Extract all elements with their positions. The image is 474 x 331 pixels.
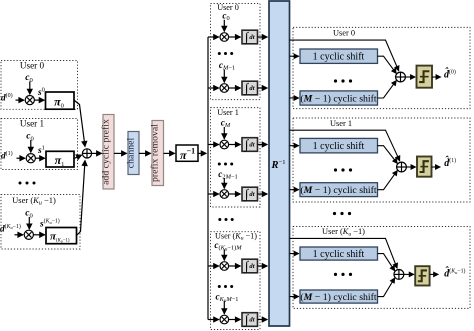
- ellipsis between despread boxes: [218, 218, 221, 221]
- integrator int-dt r0b: [242, 80, 258, 96]
- svg-text:User 0: User 0: [217, 3, 239, 12]
- svg-text:1 cyclic shift: 1 cyclic shift: [313, 141, 365, 152]
- wire multiplier to integrator r2b: [229, 319, 241, 321]
- wire integrator to R r2b: [258, 319, 268, 321]
- svg-text:dt: dt: [249, 317, 254, 324]
- wire c to multiplier r1a: [223, 127, 225, 139]
- multiplier r0b: [220, 84, 229, 93]
- wire pi0 to sum node: [74, 100, 85, 146]
- integrator int-dt r2b: [242, 312, 258, 328]
- wire pi-inverse to despread bus: [198, 152, 206, 154]
- box M-1 cyclic shift User 1: [300, 183, 378, 197]
- wire decision to output User 1: [432, 166, 441, 168]
- multiplier X2 (user1 tx): [26, 154, 35, 163]
- wire c to multiplier r2b: [223, 301, 225, 314]
- wire decision to output User 0: [432, 76, 441, 78]
- wire multiplier to interleaver pi0: [34, 99, 44, 101]
- svg-text:(M − 1) cyclic shift: (M − 1) cyclic shift: [300, 292, 377, 303]
- wire d(1) to multiplier: [17, 157, 25, 159]
- wire multiplier to integrator r0b: [229, 87, 241, 89]
- wire c to multiplier r2a: [223, 250, 225, 261]
- wire R to 1-cyclic-shift User (Ku-1): [290, 253, 299, 255]
- adder User 0: [396, 72, 406, 82]
- svg-text:1 cyclic shift: 1 cyclic shift: [313, 249, 365, 260]
- dashed box User 1 (despreader): [211, 108, 261, 207]
- integrator int-dt r2a: [242, 258, 258, 274]
- interleaver piKu box: [46, 228, 77, 244]
- ellipsis between receiver users: [333, 212, 336, 215]
- box 1 cyclic shift User (Ku-1): [300, 247, 378, 260]
- wire M-1-cyclic-shift to adder User 0: [378, 81, 397, 98]
- svg-text:dt: dt: [249, 85, 254, 92]
- ellipsis despread userKu: [218, 285, 221, 288]
- ellipsis shifts User 1: [334, 168, 337, 171]
- box 1 cyclic shift User 0: [300, 49, 378, 63]
- wire bus to multiplier r0a: [208, 36, 219, 38]
- adder User 1: [397, 162, 407, 172]
- ellipsis shifts User (Ku-1): [334, 273, 337, 276]
- wire R direct path User 0: [290, 40, 399, 71]
- ellipsis between tx users: [19, 182, 22, 185]
- wire adder to decision User (Ku-1): [404, 273, 414, 275]
- channel box: [128, 132, 139, 175]
- box M-1 cyclic shift User 0: [300, 91, 378, 105]
- wire M-1-cyclic-shift to adder User (Ku-1): [378, 278, 395, 297]
- multiplier r1b: [220, 190, 229, 199]
- wire bus to multiplier r0b: [208, 87, 219, 89]
- wire integrator to R r1a: [258, 144, 268, 146]
- wire adder to decision User 1: [406, 166, 415, 168]
- wire multiplier to interleaver piKu: [33, 234, 44, 236]
- multiplier r2b: [220, 315, 229, 324]
- wire integrator to R r0a: [258, 36, 268, 38]
- wire prem to deinterleaver: [164, 152, 175, 154]
- wire piKu to sum node: [77, 161, 86, 236]
- integrator int-dt r0a: [242, 29, 258, 45]
- ellipsis shifts User 0: [334, 79, 337, 82]
- wire R to M-1-cyclic-shift User 0: [290, 97, 299, 99]
- wire acp to channel: [114, 152, 127, 154]
- wire 1-cyclic-shift to adder User 0: [378, 56, 397, 73]
- wire 1-cyclic-shift to adder User (Ku-1): [378, 254, 395, 271]
- wire pi1 to sum node: [74, 155, 82, 159]
- wire channel to prefix removal: [139, 152, 151, 154]
- box 1 cyclic shift User 1: [300, 138, 378, 153]
- wire decision to output User (Ku-1): [430, 273, 439, 275]
- dashed box User 1 (transmitter): [1, 119, 78, 170]
- svg-text:User 1: User 1: [20, 119, 45, 129]
- wire c0 to multiplier (user1 tx): [30, 140, 32, 152]
- wire R to 1-cyclic-shift User 1: [290, 145, 299, 147]
- box M-1 cyclic shift User (Ku-1): [300, 290, 378, 303]
- wire multiplier to integrator r1b: [229, 193, 241, 195]
- wire 1-cyclic-shift to adder User 1: [378, 146, 398, 164]
- svg-text:channel: channel: [126, 137, 137, 168]
- wire c0 to multiplier (user0 tx): [29, 82, 31, 95]
- wire R direct path User (Ku-1): [290, 238, 398, 268]
- wire integrator to R r1b: [258, 193, 268, 195]
- integrator int-dt r1a: [242, 137, 258, 153]
- dashed box User 0 (receiver): [293, 27, 470, 108]
- wire integrator to R r2a: [258, 265, 268, 267]
- dashed box User 0 (despreader): [211, 4, 261, 100]
- wire R to M-1-cyclic-shift User (Ku-1): [290, 296, 299, 298]
- sum node adder: [82, 149, 91, 158]
- svg-text:1 cyclic shift: 1 cyclic shift: [313, 52, 365, 63]
- wire c to multiplier r0a: [223, 20, 225, 32]
- interleaver pi1 box: [46, 151, 74, 167]
- decision device User 1: [417, 157, 432, 177]
- wire c to multiplier r1b: [223, 179, 225, 189]
- wire c to multiplier r0b: [223, 70, 225, 83]
- wire multiplier to integrator r2a: [229, 265, 241, 267]
- ellipsis despread user1: [218, 163, 221, 166]
- svg-text:User 1: User 1: [330, 119, 352, 128]
- dashed box User (Ku-1) (receiver): [293, 227, 470, 309]
- svg-text:User (Ku −1): User (Ku −1): [215, 231, 257, 241]
- dashed box User 1 (receiver): [293, 118, 470, 202]
- multiplier r2a: [220, 262, 229, 271]
- wire d(Ku-1) to multiplier: [15, 234, 23, 236]
- svg-text:User (Ku −1): User (Ku −1): [322, 227, 365, 237]
- despread distribution bus: [207, 37, 209, 320]
- svg-text:dt: dt: [249, 34, 254, 41]
- deinterleaver pi-inverse box: [176, 145, 198, 161]
- multiplier X1 (user0 tx): [25, 96, 34, 105]
- wire integrator to R r0b: [258, 87, 268, 89]
- wire multiplier to integrator r0a: [229, 36, 241, 38]
- svg-text:User (Ku −1): User (Ku −1): [12, 195, 56, 207]
- dashed box User 0 (transmitter): [1, 61, 78, 110]
- svg-text:User 0: User 0: [333, 29, 355, 38]
- wire R direct path User 1: [290, 130, 400, 161]
- add cyclic prefix box: [103, 115, 114, 190]
- svg-text:User 0: User 0: [20, 61, 45, 71]
- wire adder to decision User 0: [405, 76, 415, 78]
- multiplier r1a: [220, 140, 229, 149]
- ellipsis despread user0: [218, 52, 221, 55]
- multiplier X3 (userKu tx): [24, 230, 33, 239]
- R-inverse matrix box: [269, 1, 290, 326]
- wire adder to add-cyclic-prefix: [92, 152, 102, 154]
- wire M-1-cyclic-shift to adder User 1: [378, 171, 398, 190]
- svg-text:dt: dt: [249, 263, 254, 270]
- dashed box User Ku-1 (transmitter): [1, 195, 80, 250]
- interleaver pi0 box: [46, 92, 75, 109]
- wire bus to multiplier r1b: [208, 193, 219, 195]
- svg-text:dt: dt: [249, 191, 254, 198]
- multiplier r0a: [220, 33, 229, 42]
- dashed box User Ku-1 (despreader): [211, 232, 261, 330]
- decision device User 0: [417, 66, 433, 88]
- wire d(0) to multiplier: [16, 99, 24, 101]
- wire bus to multiplier r2a: [208, 265, 219, 267]
- svg-text:(M − 1) cyclic shift: (M − 1) cyclic shift: [300, 94, 377, 105]
- wire R to M-1-cyclic-shift User 1: [290, 189, 299, 191]
- svg-text:dt: dt: [249, 142, 254, 149]
- wire bus to multiplier r2b: [208, 319, 219, 321]
- svg-text:(M − 1) cyclic shift: (M − 1) cyclic shift: [300, 185, 377, 196]
- wire bus to multiplier r1a: [208, 144, 219, 146]
- svg-text:User 1: User 1: [217, 108, 239, 117]
- prefix removal box: [152, 121, 164, 186]
- wire multiplier to integrator r1a: [229, 144, 241, 146]
- adder User (Ku-1): [394, 270, 404, 280]
- wire R to 1-cyclic-shift User 0: [290, 55, 299, 57]
- integrator int-dt r1b: [242, 186, 258, 202]
- svg-text:add cyclic prefix: add cyclic prefix: [101, 119, 112, 185]
- svg-text:prefix removal: prefix removal: [150, 124, 161, 182]
- wire multiplier to interleaver pi1: [35, 157, 44, 159]
- decision device User (Ku-1): [415, 266, 429, 285]
- wire c0 to multiplier (userKu tx): [28, 217, 30, 229]
